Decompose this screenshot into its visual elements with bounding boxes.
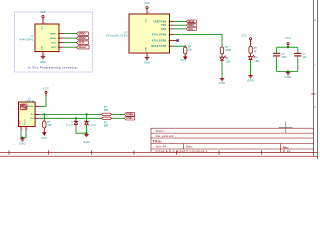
svg-text:4: 4 bbox=[58, 38, 59, 40]
svg-text:68R: 68R bbox=[104, 109, 109, 112]
svg-text:GND: GND bbox=[219, 81, 226, 85]
svg-text:3: 3 bbox=[168, 40, 169, 42]
svg-text:1: 1 bbox=[168, 46, 169, 48]
svg-text:1k5: 1k5 bbox=[48, 124, 53, 127]
svg-text:MOSI: MOSI bbox=[79, 36, 86, 40]
svg-text:B_Zener: B_Zener bbox=[66, 123, 74, 126]
svg-text:10u: 10u bbox=[303, 56, 308, 59]
svg-text:VCC: VCC bbox=[241, 34, 247, 38]
svg-text:In Situ Programming connector: In Situ Programming connector bbox=[28, 66, 78, 70]
svg-text:PB2: PB2 bbox=[161, 29, 167, 31]
svg-text:VCC: VCC bbox=[144, 1, 150, 5]
svg-text:Size: A4: Size: A4 bbox=[156, 145, 167, 149]
svg-text:Rev:: Rev: bbox=[283, 146, 289, 150]
svg-text:2: 2 bbox=[34, 118, 35, 120]
svg-text:SCK: SCK bbox=[51, 42, 56, 44]
svg-text:GND: GND bbox=[144, 60, 150, 64]
svg-text:GND: GND bbox=[247, 78, 254, 82]
svg-text:GND: GND bbox=[145, 47, 147, 52]
svg-text:330R: 330R bbox=[225, 49, 231, 52]
svg-text:VCC: VCC bbox=[41, 136, 47, 140]
svg-text:PB1: PB1 bbox=[161, 25, 167, 27]
svg-text:AVR-ISP-6: AVR-ISP-6 bbox=[19, 38, 33, 42]
svg-text:AREF/PB0: AREF/PB0 bbox=[153, 20, 167, 23]
svg-text:2: 2 bbox=[168, 34, 169, 36]
svg-text:File: carte.sch: File: carte.sch bbox=[156, 134, 174, 138]
svg-text:GND: GND bbox=[19, 120, 21, 125]
svg-text:VCC: VCC bbox=[145, 18, 147, 23]
svg-text:Id: 1/1: Id: 1/1 bbox=[283, 149, 291, 153]
svg-text:100n: 100n bbox=[282, 56, 288, 59]
svg-text:VCC: VCC bbox=[43, 86, 49, 90]
svg-text:MISO: MISO bbox=[188, 25, 194, 27]
svg-text:GND: GND bbox=[40, 60, 46, 64]
svg-text:Reset: Reset bbox=[79, 45, 86, 49]
svg-text:5: 5 bbox=[168, 21, 169, 23]
svg-text:SCK: SCK bbox=[79, 40, 85, 44]
svg-text:MOSI: MOSI bbox=[50, 38, 56, 40]
svg-text:Sheet: /: Sheet: / bbox=[156, 129, 166, 133]
svg-text:XTAL1/PB3: XTAL1/PB3 bbox=[152, 33, 167, 36]
svg-text:MISO: MISO bbox=[79, 31, 86, 35]
svg-text:GND: GND bbox=[41, 45, 43, 50]
svg-text:KiCad E.D.A. kicad 5.1.9+dfsg: KiCad E.D.A. kicad 5.1.9+dfsg1-1 bbox=[156, 149, 208, 153]
svg-text:8: 8 bbox=[148, 12, 149, 14]
svg-text:RESET/PB5: RESET/PB5 bbox=[151, 46, 166, 48]
svg-text:XTAL2/PB4: XTAL2/PB4 bbox=[152, 39, 167, 42]
svg-text:VCC: VCC bbox=[40, 10, 46, 14]
svg-text:USB+: USB+ bbox=[126, 112, 134, 116]
svg-text:3: 3 bbox=[34, 114, 35, 116]
svg-text:VCC: VCC bbox=[41, 25, 43, 30]
svg-text:1: 1 bbox=[58, 33, 59, 35]
svg-text:4: 4 bbox=[22, 129, 23, 131]
svg-text:LED: LED bbox=[255, 60, 260, 63]
svg-text:VBUS: VBUS bbox=[27, 106, 34, 108]
svg-text:MISO: MISO bbox=[50, 33, 56, 35]
svg-text:VCC: VCC bbox=[285, 36, 291, 40]
svg-text:MOSI: MOSI bbox=[188, 21, 194, 23]
svg-text:7: 7 bbox=[168, 29, 169, 31]
svg-text:5: 5 bbox=[27, 129, 28, 131]
svg-text:4: 4 bbox=[148, 55, 149, 57]
svg-text:6: 6 bbox=[168, 25, 169, 27]
svg-text:USB-: USB- bbox=[126, 116, 133, 120]
svg-text:USB_A: USB_A bbox=[26, 100, 34, 103]
svg-text:GND: GND bbox=[83, 140, 90, 144]
svg-text:3: 3 bbox=[58, 42, 59, 44]
svg-text:Title:: Title: bbox=[153, 140, 163, 144]
svg-text:ATtiny85-20SU: ATtiny85-20SU bbox=[106, 34, 128, 38]
svg-text:5: 5 bbox=[58, 47, 59, 49]
svg-text:1: 1 bbox=[34, 106, 35, 108]
svg-text:SCK: SCK bbox=[188, 29, 193, 31]
svg-text:VCC: VCC bbox=[180, 58, 186, 62]
svg-text:Date:: Date: bbox=[186, 145, 193, 149]
svg-text:RST: RST bbox=[51, 47, 56, 49]
svg-text:GND: GND bbox=[285, 75, 292, 79]
svg-text:6: 6 bbox=[44, 54, 45, 56]
svg-text:GND: GND bbox=[19, 141, 26, 145]
svg-text:2: 2 bbox=[44, 22, 45, 24]
svg-text:68R: 68R bbox=[104, 125, 109, 128]
svg-text:B_Zener: B_Zener bbox=[88, 123, 96, 126]
svg-text:LED: LED bbox=[226, 60, 231, 63]
svg-text:Shield: Shield bbox=[24, 119, 26, 126]
